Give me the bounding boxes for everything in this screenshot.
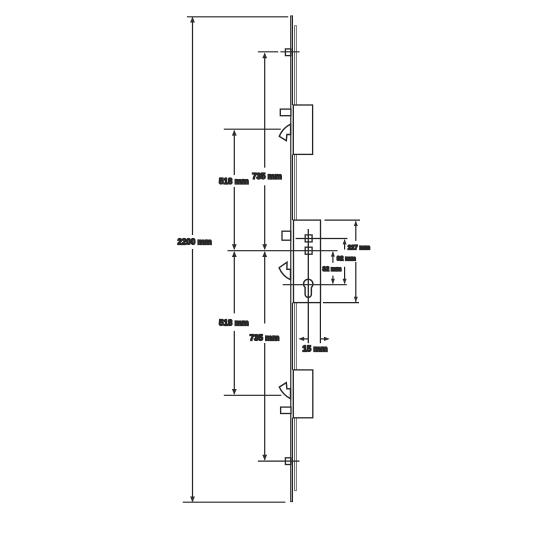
bottom roller cam — [285, 458, 291, 465]
faceplate — [290, 16, 293, 502]
extension line overall bottom — [183, 501, 286, 503]
svg-text:227 mm: 227 mm — [348, 245, 370, 251]
top roller cam — [285, 49, 291, 56]
extension line cylinder vertical — [319, 303, 321, 344]
cylinder centerline — [283, 284, 347, 286]
svg-text:2200 mm: 2200 mm — [177, 238, 211, 247]
top hook housing — [293, 105, 312, 154]
center latch tab — [282, 231, 291, 240]
euro cylinder keyhole — [304, 279, 313, 297]
svg-text:518 mm: 518 mm — [219, 177, 249, 186]
extension line gearbox top — [325, 219, 361, 221]
svg-text:82 mm: 82 mm — [322, 267, 341, 273]
center hook claw — [279, 262, 290, 280]
dimension 518 mm top — [232, 130, 237, 250]
bottom hook claw — [279, 383, 290, 399]
dimension 735 mm top — [262, 53, 267, 250]
extension line overall top — [187, 16, 288, 18]
svg-text:92 mm: 92 mm — [337, 256, 356, 262]
dimension 82 mm — [331, 251, 335, 284]
extension line gearbox bottom — [323, 302, 359, 304]
center gearbox — [294, 220, 321, 303]
follower square 1 — [305, 235, 312, 242]
dimension 735 mm bottom — [262, 251, 267, 460]
extension line top roller — [258, 51, 300, 53]
dimension 518 mm bottom — [232, 251, 237, 394]
main centerline follower 2 — [228, 250, 338, 252]
svg-text:15 mm: 15 mm — [302, 345, 327, 354]
follower square 2 — [305, 247, 312, 254]
top hook claw — [279, 124, 290, 141]
backplate strip — [294, 26, 297, 491]
svg-text:518 mm: 518 mm — [219, 318, 249, 327]
dimension 2200 mm — [190, 17, 195, 502]
bottom latch tab — [281, 407, 291, 413]
follower 1 centerline — [296, 238, 348, 240]
bottom hook housing — [293, 370, 313, 418]
svg-text:735 mm: 735 mm — [252, 172, 282, 181]
extension line bottom roller — [258, 460, 300, 462]
svg-text:735 mm: 735 mm — [250, 333, 280, 342]
dimension 227 mm — [354, 221, 358, 302]
top latch tab — [280, 109, 291, 116]
extension line bottom hook — [224, 394, 281, 396]
dimension 92 mm — [343, 239, 347, 284]
spindle centerline — [307, 229, 309, 343]
dimension 15 mm — [298, 337, 329, 341]
extension line top hook — [224, 128, 281, 130]
